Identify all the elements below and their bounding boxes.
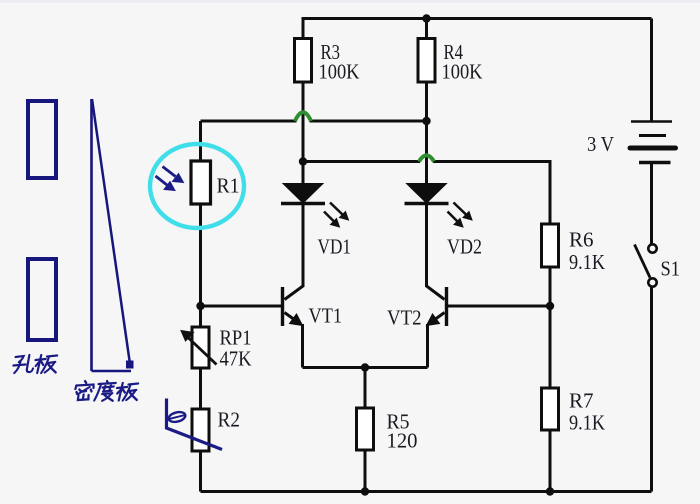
resistor R3 <box>295 39 312 83</box>
wire battery to S1 <box>650 164 653 245</box>
svg-text:3 V: 3 V <box>587 132 614 156</box>
hole plate rectangle upper <box>28 101 56 178</box>
wire top rail <box>302 17 652 20</box>
wire RP1 to R2 <box>199 368 202 409</box>
density board triangle <box>92 99 132 371</box>
junction dot VT1 base / left branch <box>196 302 204 310</box>
wire VT2 emitter vertical <box>426 324 429 368</box>
wire VD2 to VT2 collector <box>427 204 445 300</box>
junction dot emitter rail / R5 <box>361 363 369 371</box>
LED VD1 light arrows <box>324 203 349 228</box>
hole plate rectangle lower <box>28 259 56 340</box>
junction dot top rail / R4 <box>422 14 430 22</box>
resistor R6 <box>542 224 559 267</box>
transistor VT2 base bar <box>445 287 448 326</box>
junction dot bottom rail / R5 <box>361 487 369 495</box>
wire R2 to bottom rail <box>199 451 202 492</box>
wire R7 bottom <box>549 430 552 492</box>
green wire hop on wire A over R3 line <box>295 112 311 121</box>
label mi (dense) chinese char <box>74 381 95 400</box>
transistor VT1 base bar <box>281 287 284 326</box>
wire S1 to bottom rail <box>650 287 653 492</box>
resistor R4 <box>418 39 435 83</box>
wire R1 to RP1 <box>199 204 202 327</box>
label du (degree) chinese char <box>94 381 116 401</box>
svg-text:VT1: VT1 <box>309 304 343 328</box>
label ban (board) chinese char 2 <box>115 383 139 401</box>
svg-text:100K: 100K <box>442 60 483 84</box>
wire B right segment to R6 <box>433 162 550 225</box>
switch S1 <box>648 244 656 252</box>
resistor R5 <box>357 408 374 450</box>
svg-text:47K: 47K <box>220 347 252 371</box>
LED VD2 light arrows <box>448 203 473 228</box>
svg-text:R6: R6 <box>569 228 594 252</box>
svg-text:S1: S1 <box>661 257 681 281</box>
svg-text:VD2: VD2 <box>447 235 482 259</box>
green wire hop on wire B over VD2 line <box>419 155 434 161</box>
transistor VT2 emitter with arrow <box>432 313 445 322</box>
wire R3 bottom to VD1 <box>302 82 305 184</box>
svg-text:VT2: VT2 <box>387 306 422 330</box>
wire VT1 base <box>201 305 283 308</box>
label ban (board) chinese char <box>34 355 59 373</box>
svg-text:9.1K: 9.1K <box>569 411 605 435</box>
wire B left segment <box>303 160 420 163</box>
svg-text:9.1K: 9.1K <box>569 250 605 274</box>
wire R6 to R7 <box>549 267 552 388</box>
svg-text:R7: R7 <box>569 389 594 413</box>
junction dot VT2 base / R6-R7 <box>546 302 554 310</box>
svg-text:120: 120 <box>387 429 418 453</box>
wire VT2 base <box>447 305 551 308</box>
resistor R7 <box>542 388 559 430</box>
LED VD1 cathode bar <box>281 202 325 206</box>
photoresistor R1 cyan highlight circle <box>150 144 244 228</box>
potentiometer RP1 adjustment arrow <box>188 338 217 365</box>
wire VT1 emitter vertical <box>301 324 304 368</box>
wire A right segment <box>310 120 427 123</box>
wire R4 bottom to VD2 <box>425 82 428 184</box>
wire VD1 to VT1 collector <box>285 204 304 300</box>
wire R5 top stub <box>364 368 367 409</box>
label kong (hole) chinese char <box>12 355 35 373</box>
LED VD2 cathode bar <box>405 202 449 206</box>
junction dot wire B / R3 line <box>299 157 307 165</box>
wire A left segment (R4 to R1) <box>201 120 297 123</box>
thermistor R2 temperature symbol <box>167 399 223 450</box>
wire R5 bottom stub <box>364 450 367 492</box>
photoresistor R1 <box>191 161 211 204</box>
LED VD2 triangle <box>407 184 447 204</box>
svg-text:VD1: VD1 <box>318 235 352 259</box>
photoresistor R1 incident light arrows <box>156 167 184 191</box>
LED VD1 triangle <box>283 184 323 204</box>
transistor VT1 emitter with arrow <box>285 313 298 322</box>
battery BT 3V plates <box>630 122 676 163</box>
wire left branch R1 top corner <box>199 121 202 162</box>
junction dot wire A / R4 line <box>422 117 430 125</box>
wire R3 top stub <box>302 17 305 39</box>
wire emitter rail <box>303 366 428 369</box>
svg-text:R1: R1 <box>217 174 240 198</box>
thermistor R2 body <box>192 409 209 451</box>
svg-text:100K: 100K <box>319 60 360 84</box>
wire battery top <box>650 19 653 122</box>
junction dot bottom rail / R7 <box>546 487 554 495</box>
svg-text:R2: R2 <box>218 408 241 432</box>
potentiometer RP1 body <box>192 327 209 368</box>
wire bottom rail <box>201 490 652 493</box>
wire R4 top stub <box>425 17 428 39</box>
